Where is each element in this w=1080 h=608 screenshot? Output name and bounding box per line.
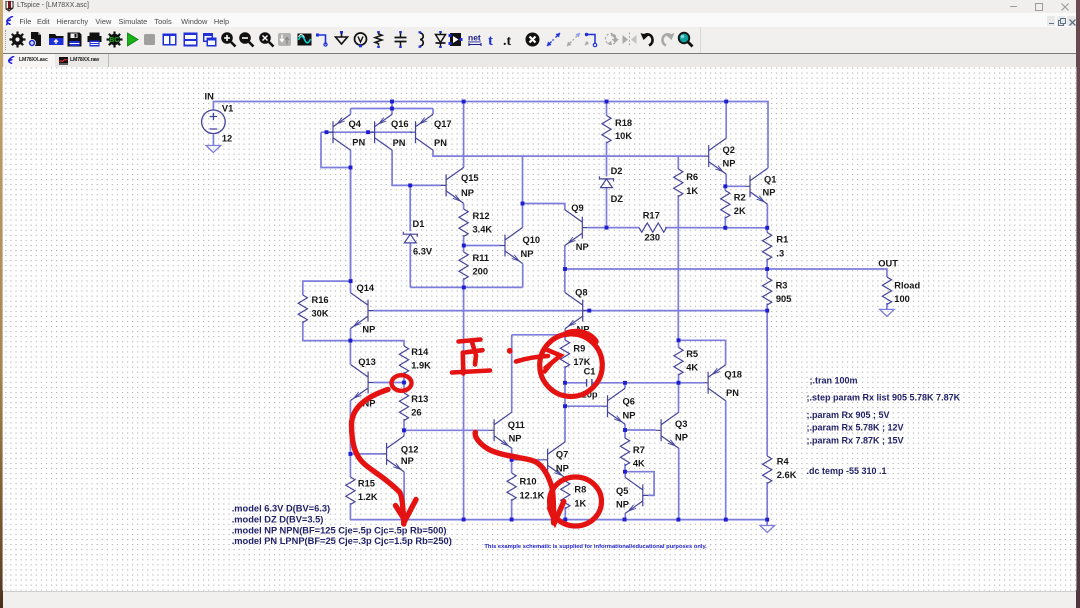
wire Q1 emitter down — [766, 204, 768, 228]
svg-text:R1: R1 — [776, 235, 788, 245]
diode D2 — [600, 166, 624, 204]
wire Q4 base to collector loop — [321, 132, 351, 167]
svg-text:Q14: Q14 — [357, 283, 375, 293]
wire Q16 collector to Q15 base — [392, 150, 441, 185]
resistor R4 — [763, 456, 797, 484]
wire node to R6 top — [677, 156, 679, 169]
wire to Q3 base — [625, 429, 656, 431]
node R5 top — [677, 338, 681, 342]
wire node to R2 — [724, 186, 726, 190]
resistor R6 — [674, 169, 699, 197]
svg-text:NP: NP — [509, 433, 522, 443]
node gnd Q18 — [724, 518, 728, 522]
wire Q15 emitter to R12 — [463, 203, 465, 209]
wire rail to ground symbol — [766, 520, 768, 526]
svg-text:;.param Rx 905 ; 5V: ;.param Rx 905 ; 5V — [807, 410, 890, 420]
transistor Q7 — [542, 442, 565, 478]
svg-text:;.param Rx 7.87K ; 15V: ;.param Rx 7.87K ; 15V — [807, 436, 904, 446]
svg-text:26: 26 — [411, 408, 421, 418]
wire Q8 emitter stub — [564, 329, 566, 336]
svg-text:R6: R6 — [686, 172, 698, 182]
red annotation S curve with arrow — [352, 390, 417, 525]
wire R2 to lower node — [724, 217, 726, 228]
node R2-R17 — [723, 226, 727, 230]
svg-text:C1: C1 — [584, 367, 596, 377]
wire to Q12 base — [350, 453, 381, 455]
svg-text:R4: R4 — [777, 457, 790, 467]
capacitor C1 — [582, 367, 598, 400]
svg-text:V1: V1 — [222, 103, 233, 113]
transistor Q14 — [350, 293, 373, 329]
wire ground rail — [350, 503, 767, 520]
svg-text:Q18: Q18 — [724, 370, 742, 380]
wire R10 to ground rail — [511, 499, 513, 520]
svg-text:1.9K: 1.9K — [411, 361, 431, 371]
svg-text:Q13: Q13 — [358, 357, 376, 367]
red annotation circle around R9 — [540, 334, 603, 397]
transistor Q1 — [745, 168, 768, 204]
red annotation character ZHENG — [452, 340, 490, 374]
svg-text:12.1K: 12.1K — [520, 490, 545, 500]
svg-text:IN: IN — [205, 92, 215, 102]
diode D1 — [403, 219, 433, 257]
svg-text:4K: 4K — [686, 363, 698, 373]
svg-text:905: 905 — [776, 294, 792, 304]
svg-text:D1: D1 — [413, 219, 425, 229]
red annotation curve into R8 with arrow — [475, 432, 564, 523]
resistor R9 — [560, 340, 590, 368]
resistor R10 — [507, 473, 545, 501]
directive .model lines — [232, 504, 452, 547]
wire rail to Q2 collector — [725, 102, 727, 139]
transistor Q18 — [703, 365, 726, 401]
svg-text:Q7: Q7 — [556, 450, 568, 460]
node gnd R4 — [765, 518, 769, 522]
wire node to R15 — [349, 454, 351, 477]
wire OUT to R3 — [766, 269, 768, 278]
node gnd R8 — [563, 518, 567, 522]
wire R7 to Q5 base loop — [625, 472, 654, 496]
wire to R16 top — [303, 281, 351, 295]
node gnd vert — [462, 518, 466, 522]
red annotation circle around R8 — [550, 477, 602, 526]
resistor R2 — [721, 191, 746, 219]
transistor Q8 — [565, 293, 588, 329]
svg-text:R2: R2 — [734, 193, 746, 203]
svg-text:R7: R7 — [633, 445, 645, 455]
node R1 top — [765, 226, 769, 230]
svg-text:NP: NP — [576, 242, 589, 252]
svg-text:10K: 10K — [615, 131, 632, 141]
voltage source V1 — [202, 103, 234, 143]
svg-text:Q5: Q5 — [616, 486, 628, 496]
wire Q14 base rail to R3 R4 node — [374, 310, 768, 312]
red annotation arrow to R9 — [516, 349, 561, 372]
resistor R14 — [399, 346, 431, 374]
wire Q13 base wire — [374, 382, 404, 384]
wire long vertical to ground rail — [463, 287, 465, 519]
transistor Q6 — [602, 388, 625, 424]
node C1-Q6c — [623, 381, 627, 385]
wire Q11 emitter stub — [511, 448, 513, 460]
wire D2 to Q9 base node — [606, 188, 608, 228]
resistor R8 — [561, 481, 587, 509]
node rail-Q2c — [724, 100, 728, 104]
svg-text:6.3V: 6.3V — [413, 247, 433, 257]
wire R13 down to node — [403, 419, 405, 430]
resistor R15 — [346, 477, 378, 505]
wire R9 to C1 node — [564, 366, 566, 383]
resistor R5 — [674, 348, 698, 376]
svg-text:230: 230 — [645, 233, 661, 243]
node Q11e-R10 — [510, 458, 514, 462]
svg-text:Q3: Q3 — [675, 419, 687, 429]
wire R9 node down to Q7 collector — [564, 383, 566, 442]
node D2-R17 — [605, 226, 609, 230]
svg-text:Q9: Q9 — [571, 203, 583, 213]
node Q6e-R7 — [623, 428, 627, 432]
svg-text:;.step param Rx list 905 5.78K: ;.step param Rx list 905 5.78K 7.87K — [807, 393, 961, 403]
svg-text:2.6K: 2.6K — [777, 470, 797, 480]
node Q4 fb — [349, 166, 353, 170]
directive simulation commands — [807, 375, 961, 476]
resistor R13 — [399, 393, 428, 421]
svg-text:R12: R12 — [473, 211, 490, 221]
svg-text:NP: NP — [675, 433, 688, 443]
wire Q3 emitter to ground rail — [678, 448, 680, 519]
wire node to R9 — [564, 335, 566, 340]
svg-text:;.param Rx 5.78K ; 12V: ;.param Rx 5.78K ; 12V — [807, 423, 904, 433]
transistor Q10 — [500, 228, 523, 264]
wire R6 bottom long down to R5 — [677, 195, 679, 340]
svg-text:NP: NP — [723, 158, 736, 168]
svg-text:200: 200 — [473, 267, 489, 277]
wire rail down to Q15 collector — [463, 102, 465, 168]
svg-text:NP: NP — [623, 411, 636, 421]
node gnd R10 — [510, 518, 514, 522]
wire to Q7 base — [512, 459, 542, 461]
wire R8 to ground rail — [564, 507, 566, 520]
wire top rail IN to Q1 collector — [213, 102, 768, 169]
wire up to Q10 emitter — [522, 264, 524, 288]
node Q13e — [348, 452, 352, 456]
wire to R14 top — [350, 341, 404, 346]
wire Q15 base node down to D1 — [409, 185, 411, 231]
wire Q2 emitter down — [725, 174, 727, 186]
svg-text:.model 6.3V D(BV=6.3): .model 6.3V D(BV=6.3) — [232, 504, 330, 514]
wire R18 to D2 — [606, 142, 608, 177]
red annotation small circle at R13 R14 junction — [392, 375, 412, 391]
wire R12 R11 node to Q10 base — [464, 245, 500, 247]
wire R17 right to R1 top — [665, 227, 767, 229]
node gnd Q3 — [676, 518, 680, 522]
resistor R16 — [298, 295, 329, 323]
svg-text:.dc temp -55 310 .1: .dc temp -55 310 .1 — [807, 466, 887, 476]
node gnd Q12 — [402, 518, 406, 522]
svg-text:Q12: Q12 — [401, 444, 419, 454]
node Q15 base — [408, 183, 412, 187]
svg-text:Q10: Q10 — [523, 235, 541, 245]
svg-text:12: 12 — [222, 134, 232, 144]
wire Q9 emitter to Q8 collector — [564, 246, 566, 293]
wire down to Q13 collector — [349, 341, 351, 365]
svg-text:Q1: Q1 — [764, 175, 776, 185]
transistor Q5 — [625, 477, 648, 513]
wire down to Q3 collector — [678, 383, 680, 413]
wire Q17 emitter stub — [432, 109, 434, 115]
wire Q13 emitter down — [349, 401, 351, 454]
svg-text:.model PN LPNP(BF=25 Cje=.3p C: .model PN LPNP(BF=25 Cje=.3p Cjc=1.5p Rb… — [232, 536, 452, 546]
wire to Q18 emitter — [679, 340, 726, 365]
node Q8 base — [587, 309, 591, 313]
svg-text:R3: R3 — [776, 281, 788, 291]
svg-text:R18: R18 — [615, 118, 632, 128]
wire node to Q6 collector — [624, 383, 626, 388]
wire node to R10 — [511, 460, 513, 473]
svg-text:Q11: Q11 — [508, 420, 525, 430]
wire OUT rail — [565, 269, 887, 277]
svg-text:1K: 1K — [574, 498, 586, 508]
svg-text:R11: R11 — [473, 253, 490, 263]
node Q13 base — [402, 381, 406, 385]
wire Q4 emitter stub — [350, 109, 352, 115]
svg-text:Q2: Q2 — [723, 145, 735, 155]
svg-text:R14: R14 — [411, 347, 429, 357]
wire rail to PNP emitters — [391, 102, 393, 115]
svg-text:2K: 2K — [734, 206, 746, 216]
svg-text:R15: R15 — [358, 479, 375, 489]
red annotation dot — [507, 348, 513, 354]
svg-text:R5: R5 — [686, 349, 698, 359]
wire R16 bottom loop — [303, 321, 351, 341]
node R16 top — [349, 279, 353, 283]
svg-text:.3: .3 — [776, 248, 784, 258]
wire node to Q11 base — [404, 429, 489, 431]
svg-text:Q8: Q8 — [575, 288, 587, 298]
node R1-R3 — [765, 267, 769, 271]
resistor R1 — [763, 233, 789, 261]
wire Q5 emitter to ground rail — [624, 513, 626, 519]
svg-text:PN: PN — [352, 138, 365, 148]
wire V1 minus to ground — [212, 135, 214, 146]
wire Q9 base to R17 — [588, 227, 639, 229]
transistor Q17 — [410, 114, 433, 150]
resistor R18 — [602, 116, 632, 144]
wire Q11 collector to Q8 emitter R9 — [512, 334, 565, 336]
svg-text:D2: D2 — [611, 166, 623, 176]
node Q16 base — [366, 130, 370, 134]
svg-text:R13: R13 — [411, 394, 428, 404]
node Q9e-out — [563, 267, 567, 271]
svg-text:R10: R10 — [520, 477, 537, 487]
transistor Q4 — [328, 114, 351, 150]
wire down to R4 — [766, 311, 768, 456]
svg-text:OUT: OUT — [878, 259, 898, 269]
svg-text:R16: R16 — [312, 295, 329, 305]
svg-text:NP: NP — [401, 456, 414, 466]
svg-text:This example schematic is supp: This example schematic is supplied for i… — [484, 544, 707, 550]
transistor Q16 — [369, 114, 392, 150]
svg-text:17K: 17K — [573, 357, 590, 367]
wire Q14 emitter down — [350, 329, 352, 341]
wire node to Q12 collector — [403, 430, 405, 436]
node R12-R11 — [462, 244, 466, 248]
wire C1 left — [565, 382, 587, 384]
wire R7 down — [624, 464, 626, 472]
svg-text:R8: R8 — [574, 485, 586, 495]
wire emitter tie Q4 Q16 Q17 — [351, 108, 434, 110]
node R16 bot — [348, 339, 352, 343]
transistor Q13 — [351, 365, 374, 401]
ground Rload — [880, 309, 895, 316]
wire R3 down — [766, 304, 768, 311]
wire node to R7 — [624, 430, 626, 438]
svg-text:R9: R9 — [573, 344, 585, 354]
wire Q17 net down to Q10 collector — [522, 156, 524, 227]
wire rail to R18 — [606, 102, 608, 116]
svg-text:R17: R17 — [643, 211, 660, 221]
node rail-emitters — [390, 100, 394, 104]
svg-text:Q15: Q15 — [461, 173, 479, 183]
node Q6 base — [563, 404, 567, 408]
wire Q18 collector to ground rail — [725, 401, 727, 520]
node R7 bot — [623, 470, 627, 474]
svg-text:NP: NP — [362, 325, 375, 335]
svg-text:DZ: DZ — [611, 194, 624, 204]
transistor Q12 — [381, 436, 404, 472]
svg-text:;.tran 100m: ;.tran 100m — [810, 375, 858, 385]
svg-text:NP: NP — [461, 188, 474, 198]
svg-text:.model DZ D(BV=3.5): .model DZ D(BV=3.5) — [232, 514, 324, 524]
node R5 bot — [677, 381, 681, 385]
resistor R11 — [459, 252, 489, 280]
wire Q12 emitter to ground rail — [403, 472, 405, 520]
node R13 bot — [402, 428, 406, 432]
svg-text:.model NP NPN(BF=125 Cje=.5p C: .model NP NPN(BF=125 Cje=.5p Cjc=.5p Rb=… — [232, 525, 447, 535]
svg-text:1.2K: 1.2K — [358, 492, 378, 502]
svg-text:1K: 1K — [686, 186, 698, 196]
svg-text:Q16: Q16 — [391, 119, 409, 129]
svg-text:3.4K: 3.4K — [473, 225, 493, 235]
svg-text:NP: NP — [556, 464, 569, 474]
wire to Q6 base — [565, 405, 602, 407]
svg-text:Q17: Q17 — [434, 119, 452, 129]
wire base rail Q4 Q16 Q17 — [321, 131, 412, 133]
wire Q2 emitter to Q1 base — [725, 185, 744, 187]
svg-text:Q6: Q6 — [623, 397, 635, 407]
wire R14 to R13 — [403, 372, 405, 393]
node rail-Q15c — [462, 100, 466, 104]
svg-text:NP: NP — [521, 249, 534, 259]
node Q2e-R2 — [723, 184, 727, 188]
transistor Q2 — [703, 138, 726, 174]
svg-text:NP: NP — [763, 188, 776, 198]
resistor R17 — [639, 211, 667, 243]
svg-text:Rload: Rload — [894, 281, 920, 291]
node Q10c-Q9c — [521, 202, 525, 206]
resistor Rload — [882, 277, 920, 305]
wire Q4 collector down to Q14 — [350, 150, 352, 292]
node R9 bot — [563, 381, 567, 385]
wire R1 to OUT rail — [766, 259, 768, 270]
wire D1 anode down — [409, 243, 411, 288]
wire C1 right to Q18 base — [592, 382, 703, 384]
transistor Q15 — [441, 167, 464, 203]
wire Q7 emitter to R8 — [564, 478, 566, 481]
wire R4 to ground rail — [766, 482, 768, 520]
resistor R3 — [763, 278, 792, 306]
resistor R7 — [620, 438, 645, 469]
wire to Q5 collector — [624, 472, 626, 478]
resistor R12 — [459, 209, 492, 237]
node gnd Q5 — [623, 518, 627, 522]
wire node to R1 — [766, 228, 768, 233]
transistor Q11 — [489, 412, 512, 448]
svg-text:PN: PN — [726, 388, 739, 398]
transistor Q9 — [565, 210, 588, 246]
ground V1 ground — [206, 146, 221, 153]
wire D1 R11 Q10 emitter tie — [410, 286, 522, 288]
node R11 bot — [462, 285, 466, 289]
svg-text:PN: PN — [434, 138, 447, 148]
ground main — [760, 526, 775, 533]
node R3 bot — [765, 309, 769, 313]
wire R12 to R11 — [463, 235, 465, 252]
wire Q10 Q9 collector tie — [523, 204, 565, 210]
svg-text:4K: 4K — [633, 459, 645, 469]
wire R5 top stub — [678, 340, 680, 347]
node R9 top — [563, 333, 567, 337]
svg-text:100: 100 — [894, 294, 910, 304]
node rail-R18 — [605, 100, 609, 104]
wire R11 to lower node — [463, 278, 465, 287]
svg-text:Q4: Q4 — [349, 119, 362, 129]
wire R5 bottom — [678, 374, 680, 383]
svg-text:30K: 30K — [312, 309, 329, 319]
transistor Q3 — [656, 412, 679, 448]
wire down to Q11 collector — [511, 335, 513, 413]
svg-text:NP: NP — [616, 500, 629, 510]
node emitter tie — [390, 107, 394, 111]
wire Q6 emitter stub — [624, 424, 626, 430]
svg-text:PN: PN — [393, 138, 406, 148]
node Q4 base — [325, 130, 329, 134]
wire dup vertical segment — [350, 168, 352, 282]
wire Rload to ground — [886, 303, 888, 309]
wire Q17 collector to Q2 base — [433, 150, 703, 156]
